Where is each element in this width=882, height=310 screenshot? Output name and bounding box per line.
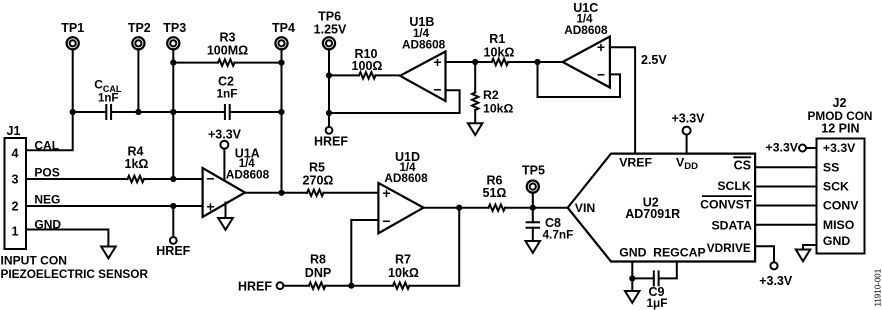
pin label VIN [575, 201, 596, 215]
svg-text:R8: R8 [310, 253, 326, 267]
svg-text:GND: GND [619, 246, 646, 260]
wire U1B +input [446, 61, 476, 63]
connector J1 body [5, 124, 27, 249]
capacitor CCAL 1nF [94, 78, 122, 120]
wire TP4 column [281, 49, 283, 193]
svg-text:TP4: TP4 [272, 21, 295, 35]
svg-text:10kΩ: 10kΩ [388, 266, 419, 280]
wire U1D output [424, 207, 489, 209]
label INPUT CON [1, 253, 68, 267]
svg-text:HREF: HREF [238, 280, 272, 294]
svg-text:+3.3V: +3.3V [671, 112, 705, 126]
svg-text:4: 4 [12, 147, 19, 161]
power +3.3V U1A [208, 128, 242, 181]
svg-text:100Ω: 100Ω [352, 59, 383, 73]
node TP3 cap-row junction [170, 109, 176, 115]
capacitor C9 1uF [632, 262, 677, 310]
svg-text:10kΩ: 10kΩ [484, 45, 515, 59]
pin label CONVST (overline) [700, 196, 752, 211]
node U1C output junction [534, 59, 540, 65]
terminal HREF (R8) [238, 280, 283, 294]
label NEG [34, 192, 60, 206]
wire TP3 column [172, 49, 174, 179]
svg-text:TP3: TP3 [163, 21, 186, 35]
svg-text:+3.3V: +3.3V [208, 128, 242, 142]
connector J2 body [808, 96, 873, 254]
svg-text:−: − [382, 213, 390, 229]
label POS [34, 165, 59, 179]
svg-text:+3.3V: +3.3V [759, 274, 793, 288]
wire NEG row [26, 205, 203, 207]
svg-text:AD8608: AD8608 [564, 23, 608, 37]
J2 pin GND [823, 234, 850, 248]
svg-text:TP1: TP1 [61, 21, 84, 35]
J1 pin 4 [12, 147, 19, 161]
svg-text:1μF: 1μF [647, 296, 668, 310]
wire CS to SS [755, 166, 816, 168]
svg-text:SS: SS [823, 160, 839, 174]
svg-text:10kΩ: 10kΩ [483, 102, 514, 116]
svg-text:SDATA: SDATA [711, 219, 752, 233]
resistor R10 100 [329, 47, 400, 79]
svg-text:+3.3V: +3.3V [823, 141, 856, 155]
svg-text:1: 1 [12, 225, 19, 239]
svg-text:−: − [206, 171, 214, 187]
svg-text:PIEZOELECTRIC SENSOR: PIEZOELECTRIC SENSOR [1, 267, 149, 281]
pin label VREF [619, 156, 652, 170]
node GND/C9 junction [629, 275, 635, 281]
svg-text:2: 2 [12, 200, 19, 214]
svg-text:AD7091R: AD7091R [625, 207, 680, 221]
op-amp U1D 1/4 AD8608 [378, 150, 428, 234]
svg-text:VIN: VIN [575, 201, 596, 215]
svg-text:HREF: HREF [156, 244, 190, 258]
svg-text:NEG: NEG [34, 192, 60, 206]
pin label SDATA [711, 219, 752, 233]
svg-text:MISO: MISO [823, 218, 855, 232]
svg-text:1.25V: 1.25V [314, 22, 347, 36]
op-amp U1B 1/4 AD8608 [400, 15, 446, 101]
svg-text:1nF: 1nF [217, 87, 238, 101]
svg-text:TP2: TP2 [128, 21, 151, 35]
svg-text:R5: R5 [309, 160, 325, 174]
wire J1 GND to ground [26, 230, 108, 247]
wire TP6 column [328, 49, 330, 127]
svg-text:REGCAP: REGCAP [653, 246, 706, 260]
resistor R4 1k [26, 145, 203, 183]
svg-text:SCK: SCK [823, 180, 849, 194]
power +3.3V VDD [671, 112, 705, 154]
resistor R7 10k [351, 253, 419, 289]
svg-text:J2: J2 [833, 96, 847, 110]
test point TP4 [272, 21, 295, 49]
power +3.3V J2 [766, 141, 817, 155]
test point TP5 [522, 163, 545, 192]
wire TP1 stub [72, 49, 74, 112]
label 2.5V [641, 53, 667, 67]
svg-text:CONV: CONV [823, 199, 859, 213]
J2 pin SCK [823, 180, 849, 194]
svg-text:AD8608: AD8608 [402, 37, 446, 51]
resistor R3 100M [173, 31, 281, 66]
wire U1C +input to VREF (2.5V net) [610, 47, 635, 153]
J2 pin CONV [823, 199, 859, 213]
J2 pin SS [823, 160, 839, 174]
svg-text:4.7nF: 4.7nF [543, 228, 574, 242]
test point TP1 [61, 21, 84, 49]
wire C2 to TP4 column [230, 111, 282, 113]
node TP5 junction [530, 205, 536, 211]
capacitor C8 4.7nF [527, 208, 574, 242]
label GND [34, 217, 61, 231]
pin label REGCAP [653, 246, 706, 260]
ground symbol (U1A) [218, 218, 233, 230]
wire U1A output [245, 192, 307, 194]
label CAL [34, 139, 59, 153]
resistor R8 DNP [283, 253, 351, 289]
resistor R5 270 [303, 160, 379, 196]
svg-text:12 PIN: 12 PIN [821, 121, 859, 135]
node R1/R2 divider [472, 59, 478, 65]
wire SCLK to SCK [755, 186, 816, 188]
svg-text:+: + [597, 39, 605, 55]
pin label VDD [676, 156, 698, 173]
svg-text:270Ω: 270Ω [303, 174, 334, 188]
svg-text:R1: R1 [489, 32, 505, 46]
svg-text:J1: J1 [7, 124, 21, 138]
svg-text:100MΩ: 100MΩ [207, 44, 248, 58]
op-amp U1C 1/4 AD8608 [563, 1, 610, 87]
node R7/R8 junction [348, 283, 354, 289]
wire cap row left segment [73, 111, 107, 113]
node TP4/R3 junction [278, 60, 284, 66]
wire U1B -input feedback [329, 90, 460, 113]
pin label CS (overline) [734, 157, 751, 172]
node TP6/feedback junction [326, 110, 332, 116]
svg-text:+: + [206, 199, 214, 215]
svg-text:POS: POS [34, 165, 59, 179]
svg-text:TP5: TP5 [522, 163, 545, 177]
node TP6/R10 junction [326, 72, 332, 78]
svg-text:R2: R2 [483, 88, 499, 102]
J1 pin 3 [12, 173, 19, 187]
node NEG/HREF junction [170, 203, 176, 209]
svg-text:+: + [433, 54, 441, 70]
node CAL/TP1 junction [70, 109, 76, 115]
wire VDRIVE to +3.3V [755, 246, 774, 262]
svg-text:VDRIVE: VDRIVE [707, 241, 751, 255]
ground symbol (C8) [526, 241, 541, 253]
ground symbol (R2) [468, 123, 483, 135]
wire SDATA to MISO [755, 224, 816, 226]
terminal HREF (source) [314, 127, 348, 149]
pin label GND (U2) [619, 246, 646, 260]
op-amp U1A 1/4 AD8608 [203, 147, 270, 217]
svg-text:−: − [597, 67, 605, 83]
svg-text:CS: CS [734, 159, 751, 173]
svg-text:DNP: DNP [305, 266, 331, 280]
test point TP2 [128, 21, 151, 49]
svg-text:2.5V: 2.5V [641, 53, 667, 67]
svg-text:SCLK: SCLK [717, 179, 751, 193]
J2 pin +3.3V [823, 141, 856, 155]
wire CONVST to CONV [755, 205, 816, 207]
figure number 11910-001 [874, 268, 882, 306]
ground symbol (J1) [101, 247, 116, 259]
node U1A output / TP4 junction [278, 190, 284, 196]
pin label SCLK [717, 179, 751, 193]
resistor R6 51 [483, 174, 568, 211]
J2 pin MISO [823, 218, 855, 232]
node U1D output junction [456, 205, 462, 211]
wire GND dot to ground [631, 278, 633, 291]
svg-text:AD8608: AD8608 [226, 168, 270, 182]
svg-text:R7: R7 [395, 253, 411, 267]
wire CAL from J1 pin4 up to cap row [26, 112, 73, 150]
wire TP2 stub [137, 49, 139, 112]
svg-text:1kΩ: 1kΩ [125, 157, 149, 171]
resistor R1 10k [475, 32, 537, 65]
pin label VDRIVE [707, 241, 751, 255]
svg-text:−: − [433, 82, 441, 98]
wire output feedback column [409, 208, 459, 286]
ground stub U1A [225, 203, 227, 219]
svg-text:HREF: HREF [314, 135, 348, 149]
wire J2 GND [803, 245, 817, 250]
J1 pin 2 [12, 200, 19, 214]
svg-text:3: 3 [12, 173, 19, 187]
wire U2 GND stub [631, 262, 633, 279]
node R4/TP3 junction [170, 176, 176, 182]
node TP4 cap-row junction [278, 109, 284, 115]
wire HREF stub U1A [172, 206, 174, 237]
svg-text:+: + [382, 185, 390, 201]
svg-text:CONVST: CONVST [700, 198, 752, 212]
svg-text:1nF: 1nF [98, 92, 118, 104]
svg-text:VREF: VREF [619, 156, 652, 170]
wire U1D -input to feedback row [351, 220, 378, 286]
J1 pin 1 [12, 225, 19, 239]
label PIEZOELECTRIC SENSOR [1, 267, 149, 281]
node TP2 junction [135, 109, 141, 115]
ground symbol (U2 GND) [625, 291, 640, 303]
power +3.3V VDRIVE [759, 262, 793, 288]
terminal HREF (U1A +input) [156, 237, 190, 258]
wire U1C output [538, 61, 563, 63]
resistor R2 10k [472, 62, 514, 123]
ground symbol (J2) [796, 250, 810, 262]
ADC U2 AD7091R body [568, 154, 755, 262]
svg-text:+3.3V: +3.3V [766, 141, 799, 155]
svg-text:GND: GND [823, 234, 850, 248]
svg-text:R3: R3 [220, 31, 236, 45]
svg-text:11910-001: 11910-001 [874, 268, 882, 306]
node TP3/R3 junction [170, 60, 176, 66]
test point TP6 1.25V [314, 10, 347, 50]
wire U1C -input feedback [538, 62, 621, 97]
svg-text:INPUT CON: INPUT CON [1, 253, 68, 267]
svg-text:51Ω: 51Ω [483, 186, 507, 200]
wire CCAL to TP2/TP3 columns [111, 111, 225, 113]
svg-text:AD8608: AD8608 [384, 171, 428, 185]
test point TP3 [163, 21, 186, 49]
svg-text:U1B: U1B [409, 15, 434, 29]
wire TP5 stub [532, 193, 534, 208]
capacitor C2 1nF [217, 75, 238, 120]
